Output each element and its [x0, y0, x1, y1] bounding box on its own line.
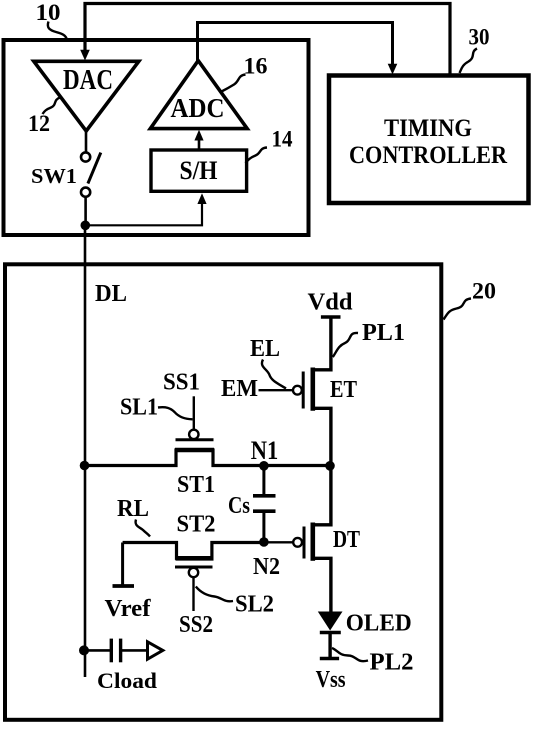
- net PL2 label and leader: [332, 648, 414, 676]
- arrowhead into DAC: [80, 50, 90, 61]
- svg-text:SW1: SW1: [31, 164, 77, 188]
- terminal Vref: [105, 543, 152, 623]
- svg-text:SL2: SL2: [235, 592, 274, 618]
- op-amp DAC (12) triangle: [34, 61, 139, 131]
- ref label 20: [444, 279, 497, 320]
- svg-text:ET: ET: [330, 377, 357, 403]
- svg-text:30: 30: [469, 25, 490, 50]
- ref label 10: [36, 0, 68, 40]
- svg-text:OLED: OLED: [346, 611, 412, 637]
- power terminal Vdd: [308, 290, 354, 318]
- svg-text:PL1: PL1: [362, 320, 405, 346]
- svg-text:DAC: DAC: [63, 65, 113, 96]
- svg-text:N2: N2: [253, 554, 280, 580]
- node: DL / ST1 junction: [80, 461, 90, 471]
- wire: SW1 to output node: [84, 197, 87, 226]
- node N1: [251, 436, 279, 471]
- ref label 14: [246, 127, 293, 164]
- ref label 30: [460, 25, 490, 74]
- svg-text:CONTROLLER: CONTROLLER: [349, 142, 508, 169]
- wire: S/H output to ADC: [198, 140, 201, 150]
- power terminal Vss: [316, 659, 346, 694]
- svg-text:ST1: ST1: [177, 472, 215, 498]
- svg-text:ADC: ADC: [171, 93, 225, 123]
- op-amp ADC (16) triangle: [150, 61, 247, 129]
- transistor ST1: [85, 396, 331, 498]
- net SL1 label and leader: [120, 395, 193, 421]
- svg-text:SS1: SS1: [163, 370, 200, 396]
- svg-text:DT: DT: [333, 527, 360, 553]
- svg-text:DL: DL: [95, 281, 127, 307]
- svg-text:SS2: SS2: [179, 612, 213, 638]
- svg-text:TIMING: TIMING: [384, 115, 472, 142]
- S/H block (14): [151, 150, 247, 191]
- arrowhead into timing controller: [388, 64, 398, 75]
- svg-text:Vss: Vss: [316, 667, 346, 693]
- diode OLED: [318, 611, 412, 658]
- svg-text:Cload: Cload: [97, 668, 157, 693]
- wire DL data line: [84, 225, 87, 677]
- block 10 (driver IC) box: [4, 40, 309, 235]
- net SL2 label and leader: [196, 587, 274, 618]
- node N2: [253, 537, 280, 580]
- svg-text:Vdd: Vdd: [308, 290, 354, 316]
- svg-text:RL: RL: [117, 496, 149, 522]
- svg-text:16: 16: [244, 54, 268, 79]
- net EL label and leader: [250, 336, 286, 389]
- pixel block 20 box: [5, 264, 441, 720]
- svg-text:10: 10: [36, 0, 61, 25]
- net RL label and leader: [117, 496, 150, 537]
- ref label 12: [28, 98, 60, 137]
- ref label 16: [222, 54, 268, 92]
- svg-text:12: 12: [28, 111, 50, 136]
- svg-text:PL2: PL2: [370, 650, 414, 676]
- wire: DAC output to SW1: [85, 131, 88, 152]
- net EM label and gate wire: [221, 376, 293, 402]
- capacitor Cload: [79, 639, 163, 693]
- svg-text:N1: N1: [251, 436, 279, 465]
- wire: junction to S/H input: [85, 204, 202, 226]
- timing controller block 30: [329, 76, 529, 204]
- transistor ST2: [123, 512, 264, 612]
- svg-text:ST2: ST2: [177, 512, 216, 538]
- svg-text:14: 14: [272, 127, 293, 152]
- wire: ADC output to timing controller: [198, 23, 393, 65]
- svg-text:Cs: Cs: [228, 493, 250, 519]
- svg-text:S/H: S/H: [180, 156, 218, 185]
- transistor DT: [264, 466, 360, 613]
- transistor ET: [293, 317, 357, 466]
- svg-text:EM: EM: [221, 376, 258, 402]
- arrowhead into ADC: [194, 130, 203, 141]
- node: SW1 output junction: [81, 221, 91, 231]
- svg-text:SL1: SL1: [120, 395, 158, 421]
- svg-text:20: 20: [472, 279, 496, 304]
- svg-text:Vref: Vref: [105, 596, 152, 622]
- wire: timing controller output to DAC input: [85, 4, 450, 75]
- capacitor Cs: [228, 466, 276, 542]
- svg-text:EL: EL: [250, 336, 280, 362]
- node: ET drain / storage junction: [325, 461, 335, 471]
- switch SW1: [31, 152, 101, 196]
- net PL1 label and leader: [333, 320, 405, 357]
- arrowhead into S/H: [197, 193, 206, 204]
